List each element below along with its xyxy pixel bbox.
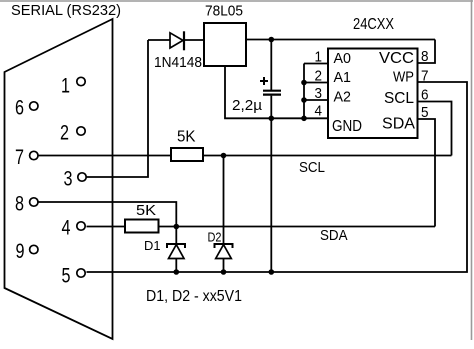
node GND/cap junction dot: [269, 116, 275, 122]
svg-text:5: 5: [421, 104, 429, 121]
svg-text:SCL: SCL: [299, 159, 325, 176]
wire SDA run: [159, 226, 436, 228]
svg-text:A0: A0: [334, 51, 352, 67]
pin 9 circle: [30, 245, 38, 253]
wire pin8 to SDA branch: [39, 202, 177, 227]
svg-text:5: 5: [62, 265, 71, 288]
resistor 5K (SCL): [171, 148, 203, 161]
svg-text:6: 6: [421, 87, 429, 104]
svg-text:3: 3: [315, 85, 323, 102]
pin 2 circle: [77, 127, 85, 135]
wire pin7 to resistor: [39, 155, 172, 157]
connector J1 DB9 outline: [5, 19, 113, 339]
capacitor C1 lead top: [270, 40, 272, 91]
wire chip pin 2 stub: [304, 82, 328, 84]
wire diode anode: [148, 39, 170, 41]
svg-text:4: 4: [315, 103, 323, 120]
pin 1 circle: [77, 77, 85, 85]
svg-text:3: 3: [64, 168, 73, 191]
svg-text:WP: WP: [393, 69, 414, 86]
wire regulator GND leg: [225, 66, 304, 118]
svg-text:2,2µ: 2,2µ: [232, 98, 263, 114]
svg-text:A1: A1: [334, 70, 352, 86]
svg-text:SDA: SDA: [320, 227, 348, 244]
pin 6 circle: [30, 102, 38, 110]
svg-text:GND: GND: [332, 118, 362, 135]
svg-text:9: 9: [16, 240, 25, 263]
svg-text:VCC: VCC: [379, 50, 414, 67]
diode 1N4148: [170, 31, 184, 50]
wire SDA leg up to chip pin 5: [418, 119, 436, 227]
capacitor plus sign: [260, 77, 268, 85]
svg-text:78L05: 78L05: [205, 3, 243, 20]
wire address pins tie bar: [303, 64, 305, 119]
regulator 78L05 box: [204, 23, 246, 66]
wire diode cathode to regulator input: [185, 39, 204, 41]
zener diode D2: [215, 156, 233, 273]
wire ground rail: [87, 82, 468, 272]
wire chip pin 1 stub: [304, 63, 328, 65]
svg-text:4: 4: [62, 217, 71, 240]
top border line: [0, 0, 473, 2]
svg-text:2: 2: [315, 68, 323, 85]
svg-text:7: 7: [15, 146, 24, 169]
svg-text:8: 8: [15, 193, 24, 216]
pin 4 circle: [77, 222, 85, 230]
svg-text:D1: D1: [144, 238, 161, 253]
wire chip pin 4 stub: [304, 117, 328, 119]
svg-text:5K: 5K: [177, 129, 196, 146]
svg-text:1: 1: [61, 75, 70, 98]
svg-text:D1, D2 - xx5V1: D1, D2 - xx5V1: [146, 288, 242, 305]
node D1 ground dot: [174, 269, 180, 275]
svg-text:D2: D2: [208, 230, 222, 245]
wire cap bottom rail to ground: [270, 96, 272, 272]
wire chip pin 3 stub: [304, 99, 328, 101]
svg-text:7: 7: [421, 68, 429, 85]
svg-text:5K: 5K: [136, 202, 156, 219]
svg-text:SDA: SDA: [382, 116, 415, 133]
wire pin3 to diode anode riser: [87, 40, 149, 177]
svg-text:A2: A2: [334, 90, 352, 106]
node pin2 tie dot: [301, 80, 307, 86]
svg-text:24CXX: 24CXX: [353, 16, 394, 33]
node SDA junction dot: [174, 224, 180, 230]
pin 3 circle: [78, 173, 86, 181]
svg-text:2: 2: [60, 122, 69, 145]
node SCL junction dot: [221, 153, 227, 159]
svg-text:1N4148: 1N4148: [154, 54, 202, 71]
wire SCL run: [203, 155, 452, 157]
node pin3 tie dot: [301, 97, 307, 103]
pin 5 circle: [77, 269, 85, 277]
wire SCL leg up to chip pin 6: [418, 102, 452, 156]
svg-text:SERIAL (RS232): SERIAL (RS232): [11, 2, 121, 19]
svg-text:8: 8: [421, 48, 429, 65]
svg-text:SCL: SCL: [384, 90, 414, 107]
pin 8 circle: [30, 198, 38, 206]
wire regulator output to VCC leg: [246, 39, 435, 41]
wire pin4 to resistor: [87, 226, 126, 228]
zener diode D1: [167, 227, 185, 273]
node VCC junction dot: [269, 37, 275, 43]
node cap ground dot: [269, 269, 275, 275]
pin 7 circle: [30, 151, 38, 159]
node D2 ground dot: [221, 269, 227, 275]
right border line: [471, 0, 473, 340]
capacitor C1 plates: [263, 91, 281, 95]
svg-text:6: 6: [15, 97, 24, 120]
IC U1 24CXX box: [328, 49, 418, 139]
node pin4 tie dot: [301, 116, 307, 122]
resistor 5K (SDA): [125, 220, 159, 233]
svg-text:1: 1: [315, 49, 323, 66]
wire VCC leg down to pin 8: [418, 40, 436, 64]
